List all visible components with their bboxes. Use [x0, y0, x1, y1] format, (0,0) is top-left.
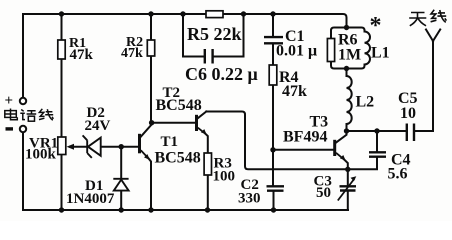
wire R2 branch — [150, 14, 152, 123]
svg-text:0.01 μ: 0.01 μ — [276, 43, 317, 60]
label - terminal — [6, 127, 14, 130]
node - terminal — [20, 126, 26, 132]
capacitor C4 plates — [369, 152, 386, 156]
transistor T3 — [335, 140, 346, 161]
svg-text:BF494: BF494 — [283, 129, 327, 146]
diode D2 zener — [83, 135, 101, 158]
wire R1/VR1 branch — [61, 14, 63, 210]
node dot C4 top — [374, 128, 379, 133]
node dot D1/D2/T1 base — [119, 144, 124, 149]
node dot tank bottom — [344, 66, 349, 71]
diode D1 — [113, 179, 128, 191]
svg-text:R5 22k: R5 22k — [187, 24, 242, 44]
svg-text:47k: 47k — [282, 83, 307, 100]
svg-text:100k: 100k — [25, 147, 57, 163]
potentiometer VR1 wiper arrow — [67, 144, 75, 150]
capacitor C3 trimmer arrow — [338, 179, 355, 201]
capacitor C5 plates — [407, 124, 414, 142]
svg-text:10: 10 — [400, 105, 416, 122]
wire T3 collector — [336, 131, 347, 143]
wire left drop from - terminal to bottom rail — [22, 133, 24, 211]
char xian2 — [431, 10, 437, 22]
node dot bottom T1 emitter — [148, 207, 153, 212]
wire D2 anode to node — [101, 146, 122, 148]
wire T1 base — [121, 146, 138, 148]
char hua — [20, 110, 25, 120]
svg-text:*: * — [370, 13, 382, 39]
resistor R1 — [58, 40, 65, 59]
node dot tank top — [344, 25, 349, 30]
wire oscillator output to C5 — [347, 130, 407, 132]
svg-text:24V: 24V — [85, 118, 111, 134]
wire left drop to + terminal — [22, 14, 24, 98]
wire C6 left leg — [183, 14, 204, 57]
wire top rail left segment — [23, 13, 206, 15]
wire D2 to VR1 wiper — [70, 146, 87, 148]
svg-text:50: 50 — [316, 185, 331, 201]
wire T3 emitter down — [345, 160, 348, 170]
wire T1 collector — [141, 123, 152, 137]
char tian — [409, 13, 426, 26]
node dot bottom R3 — [205, 207, 210, 212]
svg-text:BC548: BC548 — [156, 97, 202, 114]
svg-text:L1: L1 — [371, 45, 390, 62]
node dot top rail R1 — [59, 11, 64, 16]
wire C6 right leg — [213, 14, 243, 57]
wire C1/R4/C2 vertical branch — [272, 14, 275, 210]
wire T3 base — [273, 149, 333, 151]
node dot T3 collector/L2 — [344, 128, 349, 133]
resistor R4 — [269, 65, 277, 85]
node dot top rail C1 — [270, 11, 275, 16]
char xian — [39, 109, 45, 120]
capacitor C1 plates — [264, 37, 283, 43]
label telephone line (drawn glyphs) — [5, 109, 54, 122]
wire T2 base — [152, 122, 196, 124]
resistor R2 — [147, 40, 154, 56]
node dot bottom C2 — [271, 207, 276, 212]
capacitor C3 plates — [340, 186, 357, 190]
svg-text:330: 330 — [238, 191, 261, 207]
svg-text:1M: 1M — [338, 47, 361, 64]
wire D1 branch — [120, 147, 122, 210]
antenna — [426, 30, 440, 42]
svg-text:47k: 47k — [121, 46, 143, 61]
wire C4 branch — [376, 131, 378, 151]
resistor R6 — [327, 39, 334, 62]
wire top rail right segment — [223, 14, 347, 28]
svg-text:+: + — [5, 93, 14, 109]
wire T2 collector to T3 emitter rail — [206, 112, 377, 170]
node + terminal — [20, 98, 26, 104]
char dian — [11, 109, 18, 120]
wire bottom rail — [23, 209, 348, 211]
node dot T1 collector — [149, 120, 154, 125]
wire T2 emitter down to R3 — [206, 134, 208, 210]
svg-text:47k: 47k — [70, 47, 94, 63]
capacitor C6 plates — [205, 49, 213, 64]
inductor L2 — [346, 69, 348, 132]
transistor T1 — [140, 134, 151, 160]
wire T1 emitter down — [149, 159, 151, 210]
node dot top rail R2 — [148, 11, 153, 16]
node dot T3 base — [270, 147, 275, 152]
wire T2 collector — [198, 112, 207, 119]
svg-text:T1: T1 — [161, 134, 179, 150]
svg-text:100: 100 — [213, 169, 236, 185]
resistor R5 — [206, 11, 223, 18]
node dot bottom D1 — [119, 207, 124, 212]
transistor T2 — [197, 115, 207, 135]
node dot T3 emitter — [345, 167, 350, 172]
svg-text:5.6: 5.6 — [388, 166, 408, 183]
wire C5 to antenna — [414, 41, 433, 131]
node dot top rail R5 left — [180, 11, 185, 16]
svg-text:C6 0.22 μ: C6 0.22 μ — [185, 64, 258, 84]
svg-text:L2: L2 — [356, 94, 375, 111]
resistor R3 — [204, 153, 211, 175]
node dot top rail R5 right — [241, 11, 246, 16]
wire C3 branch — [347, 169, 349, 210]
potentiometer VR1 body — [58, 137, 66, 155]
label antenna (drawn glyphs) — [409, 10, 446, 26]
node dot bottom VR1 — [59, 207, 64, 212]
svg-text:BC548: BC548 — [155, 150, 201, 167]
inductor L1 — [347, 28, 365, 69]
capacitor C2 plates — [267, 186, 285, 190]
wire R6/L1 top node stub and loop left (R6 branch) — [331, 28, 347, 69]
svg-text:1N4007: 1N4007 — [66, 191, 115, 207]
